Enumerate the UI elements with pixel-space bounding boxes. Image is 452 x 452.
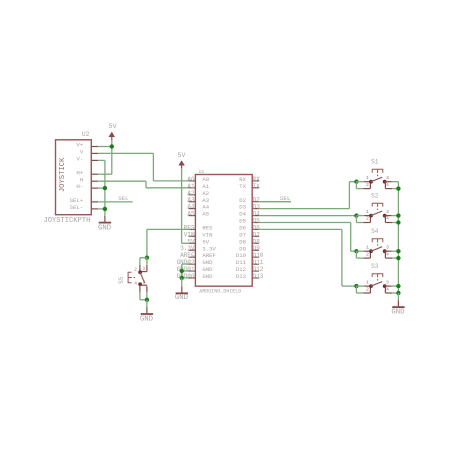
svg-text:GND: GND — [175, 294, 189, 302]
svg-text:3: 3 — [386, 175, 389, 181]
svg-text:S3: S3 — [371, 263, 379, 270]
wire GND@2 tap — [182, 263, 189, 265]
node bus at S2 pin4 — [396, 220, 400, 224]
switch S1 — [354, 169, 398, 188]
switch S4 — [354, 239, 398, 258]
joystick pin names — [69, 142, 83, 211]
wire D5 horizontal — [259, 222, 351, 224]
label U2 — [82, 131, 90, 138]
label GND (joystick) — [98, 224, 112, 232]
switch S2 — [354, 203, 398, 222]
wire D4 to S2 — [259, 215, 356, 217]
node bus at S4 pin4 — [396, 256, 400, 260]
svg-text:2: 2 — [366, 182, 369, 188]
svg-text:U1: U1 — [199, 169, 205, 175]
wire H to A1 — [146, 187, 189, 189]
wire D5 down to S4 — [350, 223, 352, 252]
wire H jog down — [145, 181, 147, 188]
svg-text:GND: GND — [98, 224, 112, 232]
svg-text:AREF: AREF — [202, 252, 215, 259]
wire H horizontal — [98, 180, 146, 182]
svg-text:2: 2 — [366, 216, 369, 222]
svg-text:1: 1 — [366, 175, 369, 181]
wire 5V riser down to H+ — [111, 140, 113, 175]
wire GND@1 tap — [182, 270, 189, 272]
op-amp U2 joystick body — [56, 140, 92, 215]
label S3 — [371, 263, 379, 270]
svg-text:2: 2 — [134, 267, 137, 273]
svg-text:D3: D3 — [239, 204, 246, 211]
svg-text:2: 2 — [366, 251, 369, 257]
svg-text:1: 1 — [366, 245, 369, 251]
svg-text:TX: TX — [253, 183, 261, 190]
wire V- stub — [98, 159, 105, 161]
svg-text:3: 3 — [142, 280, 145, 286]
wire SEL- stub — [98, 208, 105, 210]
svg-text:4: 4 — [386, 182, 389, 188]
label U1 — [199, 169, 205, 175]
node GND@1 junction — [180, 269, 184, 273]
svg-text:SEL-: SEL- — [69, 204, 83, 211]
arduino left pin labels — [177, 176, 195, 280]
svg-text:3: 3 — [386, 280, 389, 286]
label GND (arduino) — [175, 294, 189, 302]
wire 5V into 5V pin — [182, 242, 189, 244]
svg-text:JOYSTICKPTH: JOYSTICKPTH — [44, 217, 91, 225]
label S1 — [371, 159, 379, 166]
svg-text:A1: A1 — [187, 183, 195, 190]
wire gnd chain vertical — [181, 264, 183, 278]
svg-text:1: 1 — [366, 209, 369, 215]
wire D6 down to S3 — [341, 229, 343, 286]
svg-text:S5: S5 — [118, 276, 125, 284]
svg-text:D13: D13 — [236, 273, 246, 280]
svg-text:SEL+: SEL+ — [69, 197, 83, 204]
ground (arduino) — [176, 278, 188, 293]
wire RES horizontal — [147, 228, 189, 230]
svg-text:4: 4 — [386, 216, 389, 222]
ground (bus) — [392, 293, 404, 307]
svg-text:3: 3 — [386, 209, 389, 215]
node GND@0 junction — [180, 276, 184, 280]
wire D3 horizontal — [259, 208, 349, 210]
label JOYSTICKPTH — [44, 217, 91, 225]
svg-text:A5: A5 — [202, 211, 209, 218]
svg-text:1: 1 — [366, 280, 369, 286]
svg-text:VIN: VIN — [202, 231, 212, 238]
switch S5 (reset button) — [128, 258, 147, 300]
node H- junction — [103, 186, 107, 190]
svg-text:D10: D10 — [253, 252, 264, 259]
svg-text:S2: S2 — [371, 193, 379, 200]
wire GND@0 tap — [182, 277, 189, 279]
svg-text:SEL: SEL — [280, 195, 291, 202]
joystick pin stubs V+ V V- H+ H H- SEL+ SEL- — [91, 147, 98, 209]
node bus at S4 pin3 — [396, 249, 400, 253]
svg-text:A1: A1 — [202, 183, 209, 190]
svg-text:A5: A5 — [187, 211, 195, 218]
svg-text:VIN: VIN — [184, 231, 195, 238]
label GND (bus) — [391, 309, 405, 317]
svg-text:D7: D7 — [253, 231, 261, 238]
wire 5V riser to arduino — [181, 168, 183, 243]
IC U1 arduino shield body — [195, 175, 252, 287]
wire V+ to 5V junction — [98, 146, 112, 148]
wire V-/H-/SEL- vertical — [104, 160, 106, 209]
svg-text:A4: A4 — [202, 204, 209, 211]
wire ground bus vertical — [397, 182, 399, 293]
svg-text:3: 3 — [386, 245, 389, 251]
arduino right pin labels — [253, 176, 264, 280]
label 5V (joystick) — [109, 123, 117, 130]
svg-text:D7: D7 — [239, 231, 246, 238]
wire D3 up to S1 — [348, 182, 350, 209]
node bus at S1 pin4 — [396, 186, 400, 190]
node bus at S3 pin4 — [396, 291, 400, 295]
svg-text:AREF: AREF — [180, 252, 195, 259]
svg-text:V: V — [80, 149, 84, 156]
svg-text:4: 4 — [386, 286, 389, 292]
node bus at S3 pin3 — [396, 284, 400, 288]
node S5 top junction — [145, 256, 149, 260]
wire V horizontal — [98, 152, 153, 154]
svg-text:S4: S4 — [371, 228, 379, 235]
wire V jog down — [152, 153, 154, 181]
svg-text:SEL: SEL — [118, 195, 129, 202]
svg-text:GND: GND — [202, 273, 213, 280]
node S5 bottom junction — [145, 298, 149, 302]
wire into S3 — [342, 285, 357, 287]
wire D2 SEL net — [259, 201, 291, 203]
svg-text:5V: 5V — [178, 152, 186, 159]
svg-text:D3: D3 — [253, 204, 261, 211]
label S5 — [118, 276, 125, 284]
wire into S4 — [351, 250, 357, 252]
arduino left pin stubs — [189, 181, 196, 278]
ground (joystick) — [99, 209, 111, 223]
svg-text:2: 2 — [366, 286, 369, 292]
label ARDUINO_SHIELD — [199, 288, 241, 294]
svg-text:GND@0: GND@0 — [177, 273, 195, 280]
label GND (S5) — [140, 316, 154, 324]
arduino inside left pin names — [202, 176, 216, 280]
node SEL- junction — [103, 207, 107, 211]
wire H+ stub — [98, 173, 112, 175]
svg-text:S1: S1 — [371, 159, 379, 166]
supply 5V (arduino) arrow — [179, 161, 184, 168]
svg-text:U2: U2 — [82, 131, 90, 138]
switch S3 — [354, 274, 398, 293]
svg-text:H+: H+ — [76, 169, 83, 176]
svg-text:GND: GND — [391, 309, 405, 317]
wire H- stub — [98, 187, 105, 189]
wire SEL+ net — [98, 201, 133, 203]
wire V to A0 — [153, 180, 189, 182]
svg-text:D13: D13 — [253, 273, 264, 280]
svg-text:4: 4 — [134, 280, 137, 286]
arduino right pin stubs — [252, 181, 259, 278]
net label SEL (joystick) — [118, 195, 129, 202]
svg-text:H-: H- — [76, 183, 83, 190]
supply 5V (joystick) arrow — [109, 132, 114, 140]
svg-text:1: 1 — [142, 266, 145, 272]
wire RES down to S5 — [146, 229, 148, 257]
wire into S1 — [349, 181, 356, 183]
svg-text:D10: D10 — [236, 252, 247, 259]
svg-text:V-: V- — [76, 156, 83, 163]
svg-text:4: 4 — [386, 251, 389, 257]
net label SEL (arduino) — [280, 195, 291, 202]
arduino inside right pin names — [236, 176, 247, 280]
svg-text:TX: TX — [239, 183, 246, 190]
wire D6 horizontal — [259, 228, 342, 230]
ground (S5) — [141, 300, 153, 314]
label 5V (arduino) — [178, 152, 186, 159]
node bus at S2 pin3 — [396, 213, 400, 217]
svg-text:5V: 5V — [109, 123, 117, 130]
node V+ 5V junction — [110, 144, 114, 148]
svg-text:ARDUINO_SHIELD: ARDUINO_SHIELD — [199, 288, 241, 294]
svg-text:GND: GND — [140, 316, 154, 324]
label S4 — [371, 228, 379, 235]
svg-text:JOYSTICK: JOYSTICK — [59, 157, 67, 192]
label S2 — [371, 193, 379, 200]
label JOYSTICK — [59, 157, 67, 192]
svg-text:A4: A4 — [187, 204, 195, 211]
